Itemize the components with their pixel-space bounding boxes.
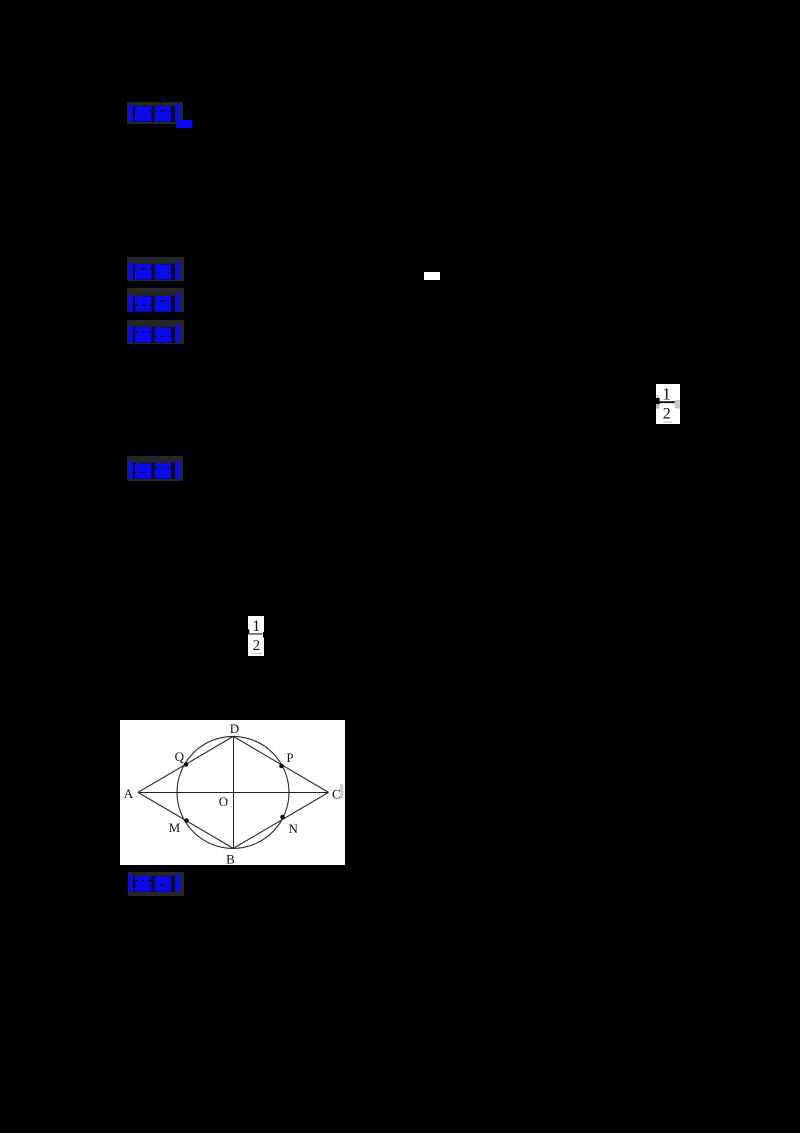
svg-text:1: 1 [662, 384, 671, 403]
svg-text:N: N [289, 821, 299, 836]
svg-text:Q: Q [175, 749, 185, 764]
svg-text:C: C [332, 786, 341, 801]
svg-text:2: 2 [253, 638, 261, 654]
svg-text:M: M [169, 820, 181, 835]
svg-text:B: B [226, 852, 235, 865]
svg-text:2: 2 [663, 405, 671, 422]
svg-text:1: 1 [252, 618, 260, 635]
svg-text:D: D [230, 721, 239, 736]
svg-text:P: P [286, 750, 293, 765]
svg-text:O: O [219, 794, 228, 809]
svg-text:A: A [124, 786, 134, 801]
